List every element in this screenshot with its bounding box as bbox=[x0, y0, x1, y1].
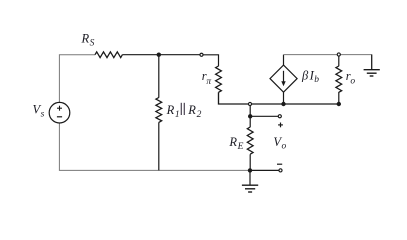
resistor R1||R2 bbox=[156, 98, 162, 123]
arrow inside source bbox=[283, 71, 285, 83]
svg-text:b: b bbox=[314, 75, 319, 85]
wire: R_E top lead bbox=[249, 116, 251, 127]
minus sign at Vo bbox=[277, 163, 282, 165]
svg-text:S: S bbox=[90, 39, 95, 49]
svg-text:R: R bbox=[187, 103, 196, 117]
node E open circle (mid rail) bbox=[248, 102, 251, 105]
wire: top-right rail to ground bbox=[284, 55, 372, 70]
svg-text:R: R bbox=[166, 103, 175, 117]
wire: R1||R2 top lead bbox=[158, 55, 160, 98]
junction dot at diamond bottom bbox=[281, 102, 285, 106]
junction dot at Vo plus tap bbox=[248, 114, 252, 118]
svg-text:R: R bbox=[81, 31, 90, 45]
svg-text:s: s bbox=[41, 109, 45, 119]
Vo minus terminal circle bbox=[279, 169, 282, 172]
plus sign at Vo bbox=[278, 124, 283, 126]
wire: r_o bottom lead bbox=[338, 92, 340, 104]
wire: emitter mid rail (r_pi bottom to r_o bottom) bbox=[219, 92, 339, 104]
wire: dependent source bottom stub bbox=[283, 92, 285, 104]
resistor r_pi bbox=[216, 66, 222, 92]
wire: left loop bottom (Vs bottom to R_E ground node) bbox=[59, 123, 250, 170]
wire: dependent source top stub bbox=[283, 55, 285, 66]
wire: top lead from R_S through node B circle bbox=[122, 54, 201, 56]
Vo plus terminal circle bbox=[278, 115, 281, 118]
ground below R_E bbox=[249, 170, 251, 185]
svg-text:R: R bbox=[228, 135, 237, 149]
wire: Vo plus tap bbox=[250, 104, 280, 116]
wire: R1||R2 bottom lead bbox=[158, 122, 160, 170]
resistor R_E bbox=[247, 127, 253, 154]
resistor r_o bbox=[336, 66, 342, 92]
voltage source Vs bbox=[49, 102, 70, 123]
dependent current source beta*Ib (diamond) bbox=[270, 65, 297, 92]
wire: left loop top (Vs top to R_S) bbox=[59, 55, 95, 103]
wire: r_o top lead bbox=[338, 55, 340, 67]
svg-text:o: o bbox=[350, 77, 355, 87]
wire: Vo minus tap bbox=[250, 169, 281, 171]
svg-text:β: β bbox=[301, 68, 309, 82]
junction dot at R_S / R1R2 bbox=[157, 53, 161, 57]
svg-text:E: E bbox=[237, 142, 244, 152]
wire: node B to r_pi top bbox=[202, 55, 219, 66]
node C open circle (top right) bbox=[337, 53, 340, 56]
svg-text:1: 1 bbox=[175, 110, 180, 120]
junction dot at r_o bottom bbox=[337, 102, 341, 106]
resistor R_S bbox=[95, 52, 122, 58]
node B open circle bbox=[200, 53, 203, 56]
wire: R_E bottom lead bbox=[249, 154, 251, 170]
ground top right bbox=[371, 55, 373, 70]
svg-text:o: o bbox=[282, 142, 287, 152]
svg-text:π: π bbox=[206, 77, 211, 87]
junction dot at R_E bottom bbox=[248, 168, 252, 172]
svg-text:2: 2 bbox=[197, 110, 202, 120]
